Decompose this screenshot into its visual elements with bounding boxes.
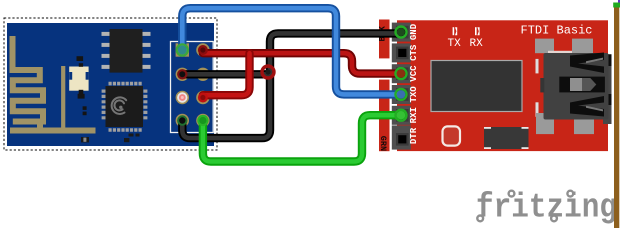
svg-text:GRN: GRN — [378, 136, 388, 151]
svg-text:DTR: DTR — [409, 127, 419, 144]
svg-text:FTDI Basic: FTDI Basic — [521, 23, 593, 37]
svg-text:fritzing: fritzing — [476, 190, 617, 228]
svg-text:RXI: RXI — [409, 107, 419, 123]
svg-text:RX: RX — [470, 38, 484, 50]
svg-text:GND: GND — [409, 23, 419, 40]
svg-text:TXO: TXO — [409, 86, 419, 103]
svg-text:TX: TX — [448, 38, 462, 50]
svg-text:CTS: CTS — [409, 44, 419, 61]
svg-text:VCC: VCC — [409, 65, 419, 82]
